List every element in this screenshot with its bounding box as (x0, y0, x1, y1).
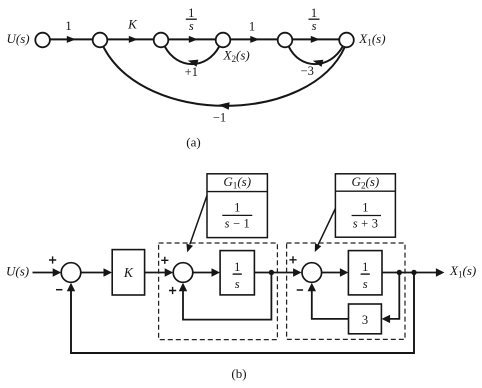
svg-text:X1(s): X1(s) (449, 263, 476, 280)
label gain 1 (65, 18, 72, 33)
svg-text:s−1: s−1 (225, 216, 250, 230)
svg-text:G1(s): G1(s) (223, 174, 251, 191)
arrowhead into gain 3 block (382, 315, 391, 323)
label minus sign S1 (56, 289, 62, 291)
arrowhead into S3 (293, 268, 302, 276)
svg-text:s: s (363, 277, 368, 291)
arrowhead branch gain 1/s first (189, 36, 198, 43)
block K (112, 250, 144, 295)
block integrator 1/s second (348, 251, 382, 295)
svg-text:U(s): U(s) (7, 31, 30, 46)
node N4 X2(s) (216, 33, 231, 48)
arrowhead into S1 (53, 268, 62, 276)
node N1 (35, 33, 50, 48)
label plus sign S2 upper (161, 257, 168, 264)
label -1 (213, 111, 226, 125)
arrowhead into integrator block 1 (212, 268, 221, 276)
wire N3 to N4 (168, 38, 215, 40)
svg-text:s: s (189, 19, 194, 33)
junction dot node B (397, 270, 402, 275)
wire S2 to integrator block 1 (193, 272, 212, 274)
node N6 X1(s) output (339, 33, 354, 48)
wire S1 to block K (81, 272, 105, 274)
arrowhead inner loop G1 into S2 (179, 283, 187, 292)
wire N2 to N3 (107, 38, 153, 40)
arrowhead branch gain 1 second (250, 36, 259, 43)
svg-text:1: 1 (234, 200, 240, 214)
caption (b) (231, 366, 246, 381)
arrowhead loop -3 (313, 60, 324, 67)
wire N1 to N2 (50, 38, 92, 40)
svg-text:K: K (127, 17, 138, 32)
arrowhead callout G1 (186, 244, 193, 253)
arrowhead loop -1 (218, 102, 229, 110)
wire N5 to N6 (292, 38, 339, 40)
node U(s) input label (7, 31, 30, 46)
wire N4 to N5 (230, 38, 277, 40)
arrowhead output (436, 268, 445, 276)
wire block K to summing junction S2 (145, 272, 165, 274)
arrowhead into integrator block 2 (340, 268, 349, 276)
svg-text:s+3: s+3 (353, 216, 378, 230)
svg-text:s: s (235, 277, 240, 291)
summing junction S1 (61, 263, 81, 283)
wire feedback loop gain -1 from N6 to N2 (104, 47, 346, 106)
svg-text:1: 1 (362, 200, 368, 214)
svg-text:1: 1 (234, 260, 240, 274)
label X2(s) (223, 48, 250, 65)
svg-text:1: 1 (362, 260, 368, 274)
svg-text:K: K (123, 265, 134, 280)
node U(s) input label diagram b (6, 264, 29, 279)
wire integrator 1 to summing junction S3 (254, 272, 293, 274)
svg-text:1: 1 (65, 18, 72, 33)
dashed box subsystem G1 (159, 243, 278, 340)
label gain 1 second (249, 19, 256, 34)
label X1(s) output diagram b (449, 263, 476, 280)
arrowhead branch gain K (129, 36, 138, 43)
junction dot node C (411, 270, 416, 275)
caption (a) (186, 135, 200, 150)
arrowhead branch gain 1/s second (311, 36, 320, 43)
svg-text:1: 1 (249, 19, 256, 34)
svg-text:X1(s): X1(s) (358, 31, 385, 48)
dashed box subsystem G2 (287, 243, 405, 339)
label X1(s) graph output (358, 31, 385, 48)
label -3 (301, 64, 314, 78)
svg-text:G2(s): G2(s) (352, 174, 380, 191)
arrowhead callout G2 (315, 243, 322, 252)
svg-text:U(s): U(s) (6, 264, 29, 279)
svg-text:−3: −3 (301, 64, 314, 78)
wire callout arrow G1 (190, 196, 207, 245)
wire integrator 2 to output X1(s) (382, 272, 436, 274)
callout box G2(s) transfer function (335, 174, 395, 237)
label +1 (185, 65, 198, 79)
svg-text:−1: −1 (213, 111, 226, 125)
svg-text:+1: +1 (185, 65, 198, 79)
arrowhead outer loop into S1 (67, 283, 75, 292)
wire U(s) to summing junction S1 (33, 272, 55, 274)
svg-text:1: 1 (188, 6, 194, 20)
svg-text:1: 1 (311, 6, 317, 20)
wire self-loop gain -3 from N6 to N5 (289, 46, 343, 64)
node N2 (93, 33, 108, 48)
label plus sign S1 (49, 256, 56, 263)
svg-text:s: s (312, 19, 317, 33)
arrowhead loop +1 (188, 60, 199, 67)
arrowhead into S2 (165, 268, 174, 276)
arrowhead inner loop G2 into S3 (308, 283, 316, 292)
wire self-loop gain +1 from N4 to N3 (165, 46, 220, 64)
wire feedback loop G1 inner (183, 273, 271, 320)
label plus sign S2 lower (169, 287, 176, 294)
svg-text:3: 3 (362, 313, 368, 327)
summing junction S2 (173, 263, 193, 283)
svg-text:X2(s): X2(s) (223, 48, 250, 65)
node N5 (278, 33, 293, 48)
label plus sign S3 (289, 256, 296, 263)
node N3 (154, 33, 169, 48)
summing junction S3 (302, 263, 322, 283)
arrowhead branch gain 1 (67, 36, 76, 43)
label gain K (127, 17, 138, 32)
label gain 1/s second integrator (309, 6, 320, 33)
wire gain 3 block to S3 (312, 291, 349, 319)
label gain 1/s first integrator (186, 6, 197, 33)
arrowhead into block K (104, 268, 113, 276)
block gain 3 (349, 304, 382, 334)
wire outer feedback loop (71, 273, 414, 354)
wire node B down to gain 3 block (390, 273, 399, 319)
label minus sign S3 (297, 289, 303, 291)
junction dot node A (269, 270, 274, 275)
wire callout arrow G2 (318, 209, 335, 246)
svg-text:(b): (b) (231, 366, 246, 381)
svg-text:(a): (a) (186, 135, 200, 150)
callout box G1(s) transfer function (207, 174, 267, 238)
wire S3 to integrator block 2 (322, 272, 341, 274)
block integrator 1/s first (220, 251, 254, 295)
